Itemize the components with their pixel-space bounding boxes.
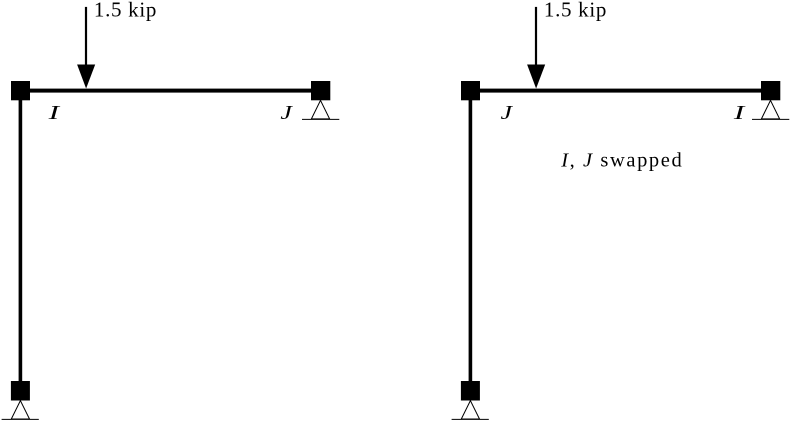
node J (right frame top-left joint square) <box>461 81 480 100</box>
label J (right frame, at top-left node) <box>501 102 514 124</box>
bottom joint square (right frame base of column) <box>461 381 480 401</box>
ground line under base pin support (left frame) <box>2 418 39 420</box>
label I (left frame, at top-left node) <box>47 102 61 124</box>
beam I-J (left frame, horizontal member) <box>11 89 330 93</box>
column member (left frame, vertical member) <box>19 90 23 391</box>
column member (right frame, vertical member) <box>469 90 473 391</box>
pin support triangle at node J (left frame) <box>311 100 329 119</box>
svg-text:I: I <box>47 102 61 124</box>
svg-text:1.5 kip: 1.5 kip <box>94 0 156 22</box>
pin support triangle at column base (right frame) <box>461 401 479 419</box>
svg-text:I: I <box>732 102 746 124</box>
ground line under pin support at I (right frame) <box>752 118 789 120</box>
force arrowhead (left frame) <box>77 65 95 89</box>
caption "I, J swapped" (right frame) <box>560 149 682 171</box>
beam J-I (right frame, horizontal member) <box>461 89 780 93</box>
svg-text:J: J <box>501 102 514 124</box>
force arrowhead (right frame) <box>527 65 545 89</box>
node I (left frame top-left joint square) <box>11 81 30 100</box>
svg-text:I, J swapped: I, J swapped <box>560 149 682 171</box>
force arrow shaft (left frame, 1.5 kip load) <box>85 7 87 67</box>
node J (left frame top-right joint square) <box>311 81 330 100</box>
value label "1.5 kip" (left frame) <box>94 0 156 22</box>
label J (left frame, at top-right node) <box>280 102 293 124</box>
pin support triangle at column base (left frame) <box>11 401 29 419</box>
node I (right frame top-right joint square) <box>761 81 780 100</box>
value label "1.5 kip" (right frame) <box>544 0 607 22</box>
label I (right frame, at top-right node) <box>732 102 746 124</box>
bottom joint square (left frame base of column) <box>11 381 30 401</box>
pin support triangle at node I (right frame) <box>761 100 779 119</box>
force arrow shaft (right frame, 1.5 kip load) <box>535 7 537 67</box>
svg-text:J: J <box>280 102 293 124</box>
ground line under pin support at J (left frame) <box>302 118 339 120</box>
ground line under base pin support (right frame) <box>452 418 489 420</box>
svg-text:1.5 kip: 1.5 kip <box>544 0 607 22</box>
